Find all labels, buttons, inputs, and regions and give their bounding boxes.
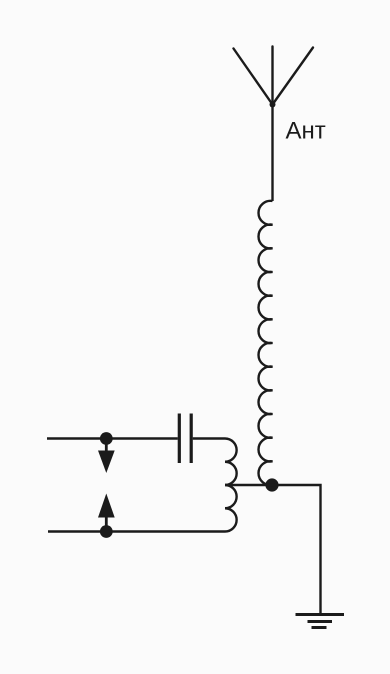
wire antenna lead <box>271 105 273 202</box>
inductor L1 antenna coil <box>259 201 273 485</box>
arrow down <box>98 443 115 473</box>
wire center tap to ground corner <box>225 485 321 615</box>
ground <box>296 615 345 628</box>
node bottom tap <box>100 525 113 538</box>
node junction at L1 bottom <box>265 478 278 491</box>
svg-text:Ант: Ант <box>286 118 326 145</box>
wire bottom left <box>48 530 225 532</box>
wire top left <box>47 437 178 439</box>
antenna W1 <box>234 47 314 108</box>
node top tap <box>100 432 113 445</box>
arrow up <box>98 494 115 528</box>
wire capacitor to L2 <box>193 437 225 439</box>
inductor L2 coupling coil <box>225 439 237 532</box>
capacitor C1 <box>179 414 191 464</box>
